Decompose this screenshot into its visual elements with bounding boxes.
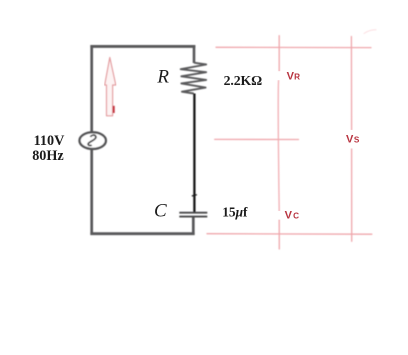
svg-text:C: C (293, 212, 299, 221)
svg-text:S: S (354, 135, 360, 144)
svg-text:R: R (156, 67, 169, 88)
svg-text:110V: 110V (34, 133, 65, 149)
svg-text:V: V (346, 133, 354, 145)
svg-text:V: V (285, 210, 293, 222)
svg-text:15μf: 15μf (222, 205, 248, 220)
svg-text:R: R (294, 72, 300, 81)
svg-text:C: C (154, 201, 167, 222)
svg-text:2.2KΩ: 2.2KΩ (224, 73, 263, 88)
svg-text:80Hz: 80Hz (32, 148, 64, 164)
